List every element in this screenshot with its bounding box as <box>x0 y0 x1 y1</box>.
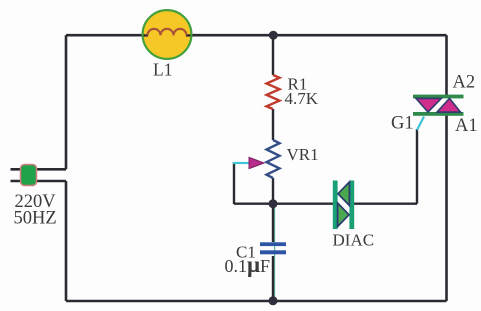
wire R1 top lead <box>272 35 274 75</box>
svg-text:0.1μF: 0.1μF <box>225 252 271 277</box>
svg-text:A2: A2 <box>453 73 476 93</box>
wire VR1 bottom lead <box>272 178 274 204</box>
wire right upper <box>445 35 448 95</box>
capacitor C1 0.1uF <box>260 242 286 246</box>
wire mid horizontal right <box>354 202 417 204</box>
svg-text:DIAC: DIAC <box>333 231 375 250</box>
wire right lower <box>445 116 448 302</box>
gate cyan lead <box>417 117 424 131</box>
wire cap-branch teal edge <box>274 207 276 297</box>
svg-text:G1: G1 <box>391 114 414 134</box>
wire gate vertical <box>416 129 418 204</box>
wire mid horizontal left <box>234 202 333 204</box>
wire left upper <box>65 35 68 169</box>
lamp L1 <box>143 10 192 59</box>
wire plug prong upper <box>11 168 67 171</box>
wiper cyan lead <box>233 162 249 164</box>
diac D1 <box>333 181 338 230</box>
svg-text:VR1: VR1 <box>287 145 319 164</box>
wire C1 top lead <box>272 204 274 242</box>
wire top <box>66 34 447 37</box>
wire bottom <box>66 300 447 303</box>
wiper arrow <box>249 157 264 168</box>
triac right triangle <box>437 98 461 112</box>
potentiometer VR1 <box>267 140 280 178</box>
triac Q1 <box>413 95 464 99</box>
wire C1 bottom lead <box>272 256 274 301</box>
plug P1 220V 50HZ <box>21 165 37 186</box>
svg-text:4.7K: 4.7K <box>285 89 319 108</box>
node mid junction <box>269 199 278 208</box>
wire left lower <box>65 181 68 301</box>
diac lower triangle <box>338 203 349 227</box>
svg-text:A1: A1 <box>455 116 478 136</box>
wire R1-VR1 link <box>272 109 274 140</box>
wire plug prong lower <box>11 180 67 183</box>
diac upper triangle <box>338 182 349 206</box>
node bottom junction <box>269 296 278 305</box>
wire wiper loop <box>233 162 235 204</box>
svg-text:50HZ: 50HZ <box>14 209 57 229</box>
node top junction <box>269 31 278 40</box>
svg-text:L1: L1 <box>153 60 172 80</box>
triac left triangle <box>416 98 441 112</box>
resistor R1 4.7K <box>267 75 280 109</box>
